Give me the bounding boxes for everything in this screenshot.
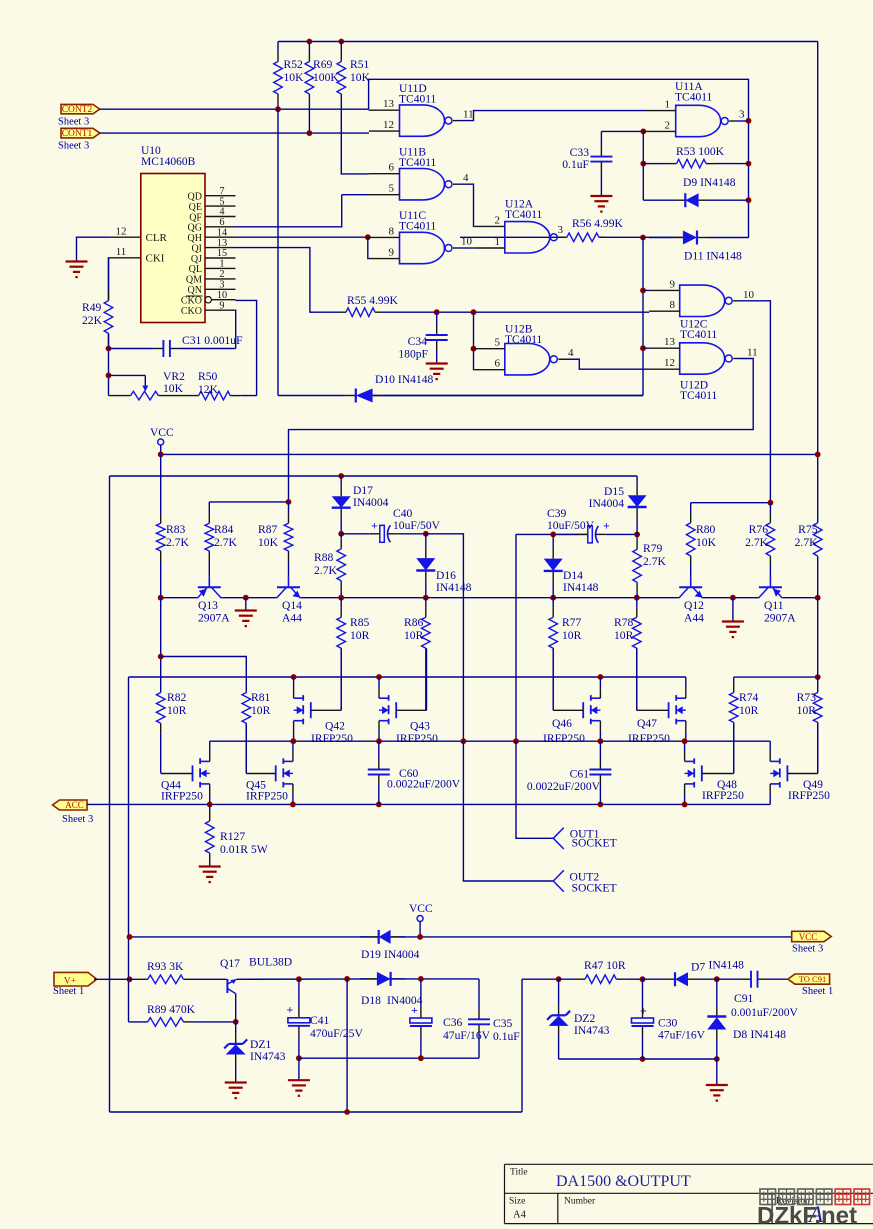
junction output rail (682, 738, 688, 744)
svg-text:9: 9 (670, 278, 676, 290)
svg-text:8: 8 (389, 225, 395, 237)
wire emitter rail segment (301, 597, 679, 599)
junction top rail R51 (338, 39, 344, 45)
svg-text:TC4011: TC4011 (505, 334, 543, 346)
junction source rail (207, 802, 213, 808)
junction rail R79 (634, 595, 640, 601)
wire R55 to U12C pin8 (381, 311, 649, 313)
capacitor C91 (717, 971, 799, 1019)
resistor R55 (340, 294, 399, 317)
resistor R127 (205, 804, 214, 866)
svg-text:MC14060B: MC14060B (141, 156, 196, 168)
svg-text:10R: 10R (739, 704, 759, 717)
capacitor C61 (527, 741, 612, 804)
svg-text:IN4004: IN4004 (589, 497, 625, 510)
svg-text:VCC: VCC (799, 932, 818, 942)
wire VCC rail mid (161, 453, 818, 455)
svg-text:10K: 10K (258, 536, 279, 549)
svg-text:R47 10R: R47 10R (584, 959, 626, 972)
diode D11 (649, 231, 749, 263)
wire CONT2 line (100, 108, 369, 110)
junction output rail (290, 738, 296, 744)
U11C pin 9 (369, 247, 400, 259)
svg-text:0.0022uF/200V: 0.0022uF/200V (527, 780, 601, 793)
junction output rail (376, 738, 382, 744)
transistor Q14 (277, 576, 303, 624)
svg-text:R49: R49 (82, 301, 102, 314)
power VCC bottom (409, 903, 433, 937)
junction U12D pin13 (640, 345, 646, 351)
diode D8 (707, 979, 786, 1059)
wire CLR to ground (77, 237, 111, 261)
wire D18 out (391, 978, 479, 980)
junction x347 vertical (344, 976, 350, 982)
svg-text:C61: C61 (570, 768, 590, 781)
svg-text:R73: R73 (797, 691, 817, 704)
wire R77 to Q46 gate (552, 648, 554, 710)
junction DZ2 top (556, 976, 562, 982)
wire DZ2 bottom rail (559, 1058, 717, 1060)
svg-text:10uF/50V: 10uF/50V (393, 519, 441, 532)
svg-text:R52: R52 (284, 58, 304, 71)
svg-text:IRFP250: IRFP250 (396, 732, 438, 745)
svg-text:Sheet 3: Sheet 3 (58, 117, 89, 128)
svg-text:12: 12 (383, 119, 394, 131)
capacitor C60 (368, 741, 461, 804)
junction pin8/9 (365, 234, 371, 240)
svg-text:D10 IN4148: D10 IN4148 (375, 373, 433, 386)
svg-text:2.7K: 2.7K (214, 536, 237, 549)
resistor R51 (337, 42, 371, 101)
svg-text:4: 4 (463, 172, 469, 184)
junction C34 (434, 309, 440, 315)
svg-text:TC4011: TC4011 (680, 329, 718, 341)
svg-text:5: 5 (389, 183, 395, 195)
U11D pin 12 (369, 119, 400, 131)
junction U12C pin9 (640, 288, 646, 294)
svg-text:0.0022uF/200V: 0.0022uF/200V (387, 778, 461, 791)
transistor Q11 (758, 576, 796, 624)
wire U12C out down (739, 301, 770, 503)
svg-text:R89 470K: R89 470K (147, 1003, 196, 1016)
svg-text:VCC: VCC (409, 903, 433, 915)
wire R56 to D11 (600, 236, 684, 238)
svg-text:R81: R81 (251, 691, 271, 704)
resistor R83 (156, 454, 189, 597)
svg-text:R51: R51 (350, 58, 370, 71)
U12A pin 3 (558, 224, 567, 237)
svg-text:0.01R 5W: 0.01R 5W (220, 843, 268, 856)
ground R127 ground (199, 867, 221, 883)
zener DZ2 (547, 979, 610, 1059)
capacitor C31 0.001uF (109, 334, 244, 357)
svg-text:Sheet 3: Sheet 3 (62, 814, 93, 825)
junction rail D16 (423, 595, 429, 601)
svg-text:0.001uF/200V: 0.001uF/200V (731, 1007, 798, 1019)
svg-text:Sheet 1: Sheet 1 (53, 986, 84, 997)
wire CKO pin10 to R50 (236, 300, 257, 395)
diode D10 (278, 373, 643, 403)
svg-text:2907A: 2907A (764, 612, 796, 625)
wire R81 to Q45 gate (245, 723, 247, 773)
wire CONT2 down to D10 (277, 109, 279, 395)
junction C31 left (106, 346, 112, 352)
wire output rail (210, 740, 771, 742)
IC U10 MC14060B (110, 145, 235, 323)
svg-text:R85: R85 (350, 616, 370, 629)
svg-text:D11 IN4148: D11 IN4148 (684, 250, 742, 263)
wire R78 to Q47 gate (636, 648, 638, 710)
ground CLR ground (66, 262, 88, 278)
wire x347 vertical (346, 979, 348, 1112)
junction rail R75 (815, 595, 821, 601)
junction drain bus (598, 674, 604, 680)
svg-text:Q43: Q43 (410, 720, 430, 733)
junction source rail (376, 802, 382, 808)
svg-text:ACC: ACC (65, 800, 84, 810)
wire U12B pin5 stub join (473, 348, 476, 350)
svg-text:QL: QL (189, 264, 202, 275)
svg-text:13: 13 (383, 98, 395, 110)
svg-text:Q17: Q17 (220, 957, 240, 970)
junction R56/D11 (640, 235, 646, 241)
svg-text:10R: 10R (350, 629, 370, 642)
mosfet Q42 (294, 677, 353, 745)
svg-text:IN4148: IN4148 (751, 1028, 787, 1041)
wire U12B pins tie (473, 312, 476, 370)
wire x161 vertical (160, 598, 162, 693)
svg-text:3: 3 (219, 280, 224, 291)
svg-text:R93 3K: R93 3K (147, 960, 184, 973)
svg-text:10R: 10R (167, 704, 187, 717)
wire R86 to Q43 gate (426, 648, 428, 710)
junction C30 top (640, 976, 646, 982)
resistor R86 (404, 598, 430, 710)
resistor R84 (205, 502, 237, 576)
resistor R50 (198, 370, 257, 400)
svg-text:R74: R74 (739, 691, 759, 704)
resistor R82 (156, 691, 186, 773)
resistor R47 (559, 959, 641, 984)
U11B pin 6 (369, 162, 400, 174)
wire R53 left (643, 163, 655, 165)
svg-text:Title: Title (510, 1168, 528, 1178)
potentiometer VR2 (109, 370, 199, 400)
U12B pin 4 (558, 347, 574, 359)
resistor R73 (797, 691, 822, 773)
svg-text:IRFP250: IRFP250 (788, 789, 830, 802)
svg-text:12K: 12K (198, 383, 219, 396)
svg-text:A44: A44 (282, 612, 302, 625)
svg-text:Q42: Q42 (325, 720, 345, 733)
junction top rail R69 (307, 39, 313, 45)
svg-text:5: 5 (495, 337, 501, 349)
wire R89 left (129, 1021, 148, 1023)
wire OUT1 (516, 741, 553, 838)
svg-text:2: 2 (495, 214, 501, 226)
U11C pin 10 (453, 236, 473, 249)
resistor R85 (337, 598, 370, 710)
gate U11D (399, 83, 452, 136)
svg-text:R77: R77 (562, 616, 582, 629)
svg-text:7: 7 (219, 186, 224, 197)
wire left tall vertical (109, 476, 111, 1112)
wire ground stem D8 (716, 1059, 718, 1085)
sheet connector TO C91 (788, 974, 833, 997)
svg-text:100K: 100K (313, 71, 339, 84)
svg-text:D8: D8 (733, 1028, 747, 1041)
U12D pin 12 (649, 357, 680, 369)
svg-text:6: 6 (389, 162, 395, 174)
svg-text:C41: C41 (310, 1014, 330, 1027)
svg-text:+: + (371, 519, 378, 533)
U12A pin 1 (474, 236, 505, 248)
junction source rail (598, 802, 604, 808)
wire R49 bottom chain (108, 333, 110, 395)
resistor R77 (549, 598, 582, 710)
junction rail D14 (550, 595, 556, 601)
svg-text:5: 5 (219, 196, 224, 207)
svg-text:Q46: Q46 (552, 717, 572, 730)
svg-text:10K: 10K (284, 71, 305, 84)
resistor R52 (274, 42, 304, 110)
junction rail R85 (338, 595, 344, 601)
junction output rail (598, 738, 604, 744)
svg-text:2.7K: 2.7K (795, 536, 818, 549)
svg-text:Sheet 3: Sheet 3 (58, 141, 89, 152)
watermark (757, 1189, 870, 1229)
svg-text:BUL38D: BUL38D (249, 956, 292, 969)
wire VCC right vertical lower (817, 556, 819, 598)
title block (505, 1164, 873, 1227)
ground C34 ground (426, 364, 448, 380)
gate U12B (505, 324, 558, 375)
U11D pin 13 (369, 98, 400, 110)
junction V+ node (127, 976, 133, 982)
wire emitter rail segment (783, 597, 818, 599)
wire U12D out feedback (289, 359, 754, 502)
svg-text:CLR: CLR (146, 232, 168, 244)
junction D9 right (746, 197, 752, 203)
svg-text:TC4011: TC4011 (399, 157, 437, 169)
svg-text:Q13: Q13 (198, 599, 218, 612)
junction R87 top (286, 499, 292, 505)
transistor Q17 (220, 956, 292, 994)
wire R51 to U11B pin6 (341, 100, 368, 174)
capacitor C35 (468, 979, 520, 1058)
junction C36 top (418, 976, 424, 982)
U12D pin 11 (733, 347, 757, 359)
svg-text:QH: QH (188, 233, 202, 244)
svg-text:TC4011: TC4011 (680, 390, 718, 402)
wire U11B out to U12A pin2 (460, 184, 474, 226)
mosfet Q46 (543, 677, 600, 745)
svg-text:A44: A44 (684, 612, 704, 625)
resistor R87 (258, 502, 293, 576)
wire QI to R55 (236, 248, 341, 313)
resistor R81 (242, 691, 271, 773)
junction D8 top (714, 976, 720, 982)
svg-text:IN4743: IN4743 (574, 1024, 610, 1037)
junction DZ1 top (233, 1019, 239, 1025)
connector OUT2 (553, 870, 616, 894)
resistor R49 (82, 258, 113, 349)
capacitor C40 (341, 507, 440, 542)
svg-text:2.7K: 2.7K (314, 564, 337, 577)
connector OUT1 (553, 828, 616, 850)
svg-text:+: + (411, 1003, 418, 1017)
junction output rail (461, 738, 467, 744)
sheet connector V+ (53, 972, 97, 997)
resistor R56 (566, 217, 624, 242)
junction C40 left (338, 531, 344, 537)
svg-text:8: 8 (670, 299, 676, 311)
wire R74 to Q48 gate (733, 722, 735, 773)
wire R47 feed vertical (521, 979, 523, 1112)
junction VR2 wiper (106, 373, 112, 379)
svg-text:R53 100K: R53 100K (676, 145, 725, 158)
svg-text:Sheet 3: Sheet 3 (792, 944, 823, 955)
svg-text:CKO: CKO (181, 306, 202, 317)
wire to R47 (522, 978, 559, 980)
wire C39 to output rail (515, 534, 517, 741)
svg-text:2.7K: 2.7K (643, 555, 666, 568)
svg-text:R82: R82 (167, 691, 187, 704)
svg-text:R79: R79 (643, 542, 663, 555)
junction C41 bottom (296, 1055, 302, 1061)
wire emitter rail segment (161, 597, 197, 599)
resistor R53 (655, 159, 742, 168)
junction D14 top (550, 532, 556, 538)
U12C pin 8 (649, 299, 680, 311)
junction D19 rail (127, 934, 133, 940)
svg-text:C36: C36 (443, 1016, 463, 1029)
transistor Q12 (679, 576, 704, 624)
resistor R74 (729, 677, 758, 773)
capacitor C39 (547, 507, 637, 543)
wire VCC top rail (278, 41, 818, 43)
junction output rail (513, 738, 519, 744)
wire drain bus (129, 676, 686, 678)
wire emitter rail segment (703, 597, 758, 599)
junction CONT1/R69 (307, 130, 313, 136)
svg-text:D9 IN4148: D9 IN4148 (683, 176, 736, 189)
svg-text:Q14: Q14 (282, 599, 302, 612)
svg-text:+: + (603, 519, 610, 533)
U11C pin 8 (369, 225, 400, 237)
svg-text:15: 15 (217, 248, 227, 259)
svg-text:10K: 10K (350, 71, 371, 84)
svg-text:4: 4 (568, 347, 574, 359)
gate U12A (505, 199, 558, 254)
svg-text:R75: R75 (798, 523, 818, 536)
diode D16 (416, 534, 471, 598)
svg-text:10R: 10R (614, 629, 634, 642)
wire C41 ground stem (298, 1058, 300, 1080)
junction C41 top (296, 976, 302, 982)
wire U11C out to U12A pin1 (460, 247, 474, 249)
svg-text:R83: R83 (166, 523, 186, 536)
svg-text:0.1uF: 0.1uF (493, 1030, 520, 1043)
svg-text:IRFP250: IRFP250 (628, 732, 670, 745)
svg-text:CONT1: CONT1 (62, 129, 93, 139)
junction rail gnd2 (730, 595, 736, 601)
wire pin13 join (643, 347, 649, 349)
label R53 (676, 145, 725, 158)
resistor R79 (633, 534, 667, 597)
svg-text:VCC: VCC (150, 427, 174, 439)
ground C33 ground (590, 196, 612, 212)
junction D15/R79 (634, 532, 640, 538)
wire VCC right vertical upper (817, 42, 819, 523)
svg-text:IN4004: IN4004 (384, 948, 420, 961)
svg-text:R88: R88 (314, 551, 334, 564)
junction U11A out (746, 118, 752, 124)
mosfet Q47 (628, 677, 686, 745)
svg-text:10uF/50V: 10uF/50V (547, 519, 595, 532)
sheet connector VCC out (792, 931, 832, 954)
wire U12B out to U12D pin12 (560, 359, 649, 369)
svg-text:R78: R78 (614, 616, 634, 629)
svg-text:22K: 22K (82, 314, 103, 327)
svg-text:QI: QI (191, 243, 202, 254)
svg-text:2.7K: 2.7K (166, 536, 189, 549)
svg-text:IN4743: IN4743 (250, 1050, 286, 1063)
wire drive rail2 (110, 475, 638, 477)
svg-text:V+: V+ (64, 976, 76, 986)
diode D19 (360, 930, 420, 961)
svg-text:SOCKET: SOCKET (572, 882, 617, 895)
svg-text:D7: D7 (691, 961, 705, 974)
wire source rail ACC (132, 803, 771, 805)
wire feedback top (369, 79, 749, 238)
gate U11A (675, 81, 728, 137)
wire R73 to Q49 gate (817, 722, 819, 773)
svg-text:Size: Size (509, 1197, 525, 1207)
svg-text:R56 4.99K: R56 4.99K (572, 217, 624, 230)
svg-text:10K: 10K (696, 536, 717, 549)
svg-text:9: 9 (389, 247, 395, 259)
wire right vertical to R73 (817, 598, 819, 693)
ground C41 ground (288, 1080, 310, 1096)
resistor R75 (795, 523, 822, 556)
ground D8 ground (706, 1085, 728, 1101)
wire OUT2 (463, 741, 553, 881)
svg-text:R87: R87 (258, 523, 278, 536)
svg-text:10: 10 (461, 236, 473, 248)
ground mid ground left (235, 611, 257, 627)
svg-text:14: 14 (217, 227, 227, 238)
svg-text:11: 11 (116, 246, 127, 258)
svg-text:IRFP250: IRFP250 (702, 789, 744, 802)
U11B pin 4 (453, 172, 469, 184)
svg-text:2907A: 2907A (198, 612, 230, 625)
svg-text:QM: QM (186, 275, 202, 286)
wire R85 to Q42 gate (340, 648, 342, 710)
svg-text:R55 4.99K: R55 4.99K (347, 294, 399, 307)
wire D10 line right (373, 395, 643, 397)
wire U11D out to U11A pin1 (460, 111, 645, 121)
wire Q17 emitter line (236, 978, 377, 980)
svg-text:10: 10 (743, 289, 755, 301)
wire U11A out (736, 120, 749, 122)
power VCC mid (150, 427, 174, 454)
svg-text:CKI: CKI (146, 253, 165, 265)
sheet connector CONT2 (58, 104, 100, 127)
wire U12B out (566, 358, 579, 360)
zener DZ1 (224, 1022, 285, 1082)
capacitor C36 (410, 979, 491, 1058)
